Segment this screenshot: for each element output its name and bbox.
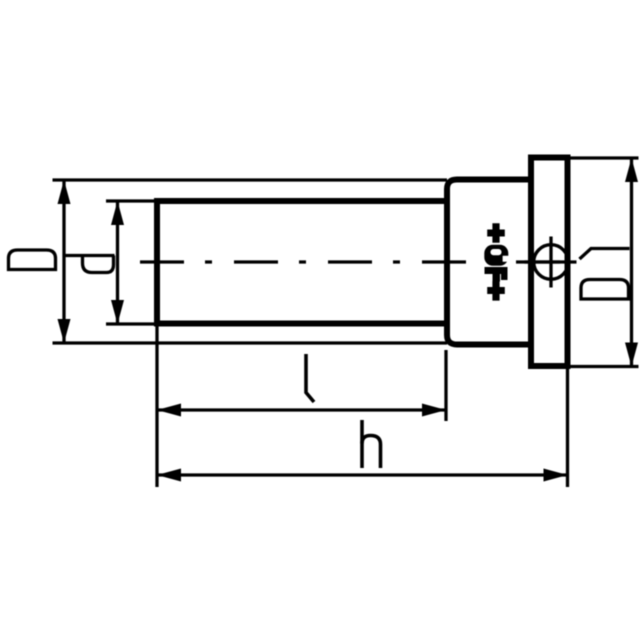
flange: [531, 158, 568, 367]
+GF+ logo: [485, 223, 508, 300]
dimension D line: [62, 180, 65, 343]
dimension l arrow left: [157, 404, 181, 417]
dimension D arrow down: [58, 319, 71, 343]
dimension l line: [157, 408, 446, 411]
dimension d line: [116, 201, 119, 324]
dimension d extension lines: [106, 201, 157, 324]
label h: [362, 420, 381, 468]
label l: [306, 354, 314, 402]
label D1: [580, 249, 630, 300]
dimension l extension line: [444, 350, 447, 421]
dimension h arrow left: [157, 469, 181, 482]
dimension D extension lines: [53, 180, 448, 343]
label D: [9, 250, 56, 270]
dimension D1 line: [630, 158, 633, 367]
label d: [64, 256, 115, 273]
dimension D1 arrow up: [625, 158, 638, 182]
dimension h extension lines: [157, 326, 568, 487]
dimension D arrow up: [58, 180, 71, 204]
dimension l arrow right: [422, 404, 446, 417]
dimension h arrow right: [544, 469, 568, 482]
dimension D1 extension lines: [570, 158, 639, 367]
dimension d arrow up: [111, 201, 124, 225]
collar: [447, 180, 531, 345]
dimension d arrow down: [111, 300, 124, 324]
dimension D1 arrow down: [625, 343, 638, 367]
crosshair circle: [525, 237, 577, 288]
dimension h line: [157, 473, 568, 476]
centerline: [140, 260, 577, 263]
pipe body: [157, 201, 447, 324]
